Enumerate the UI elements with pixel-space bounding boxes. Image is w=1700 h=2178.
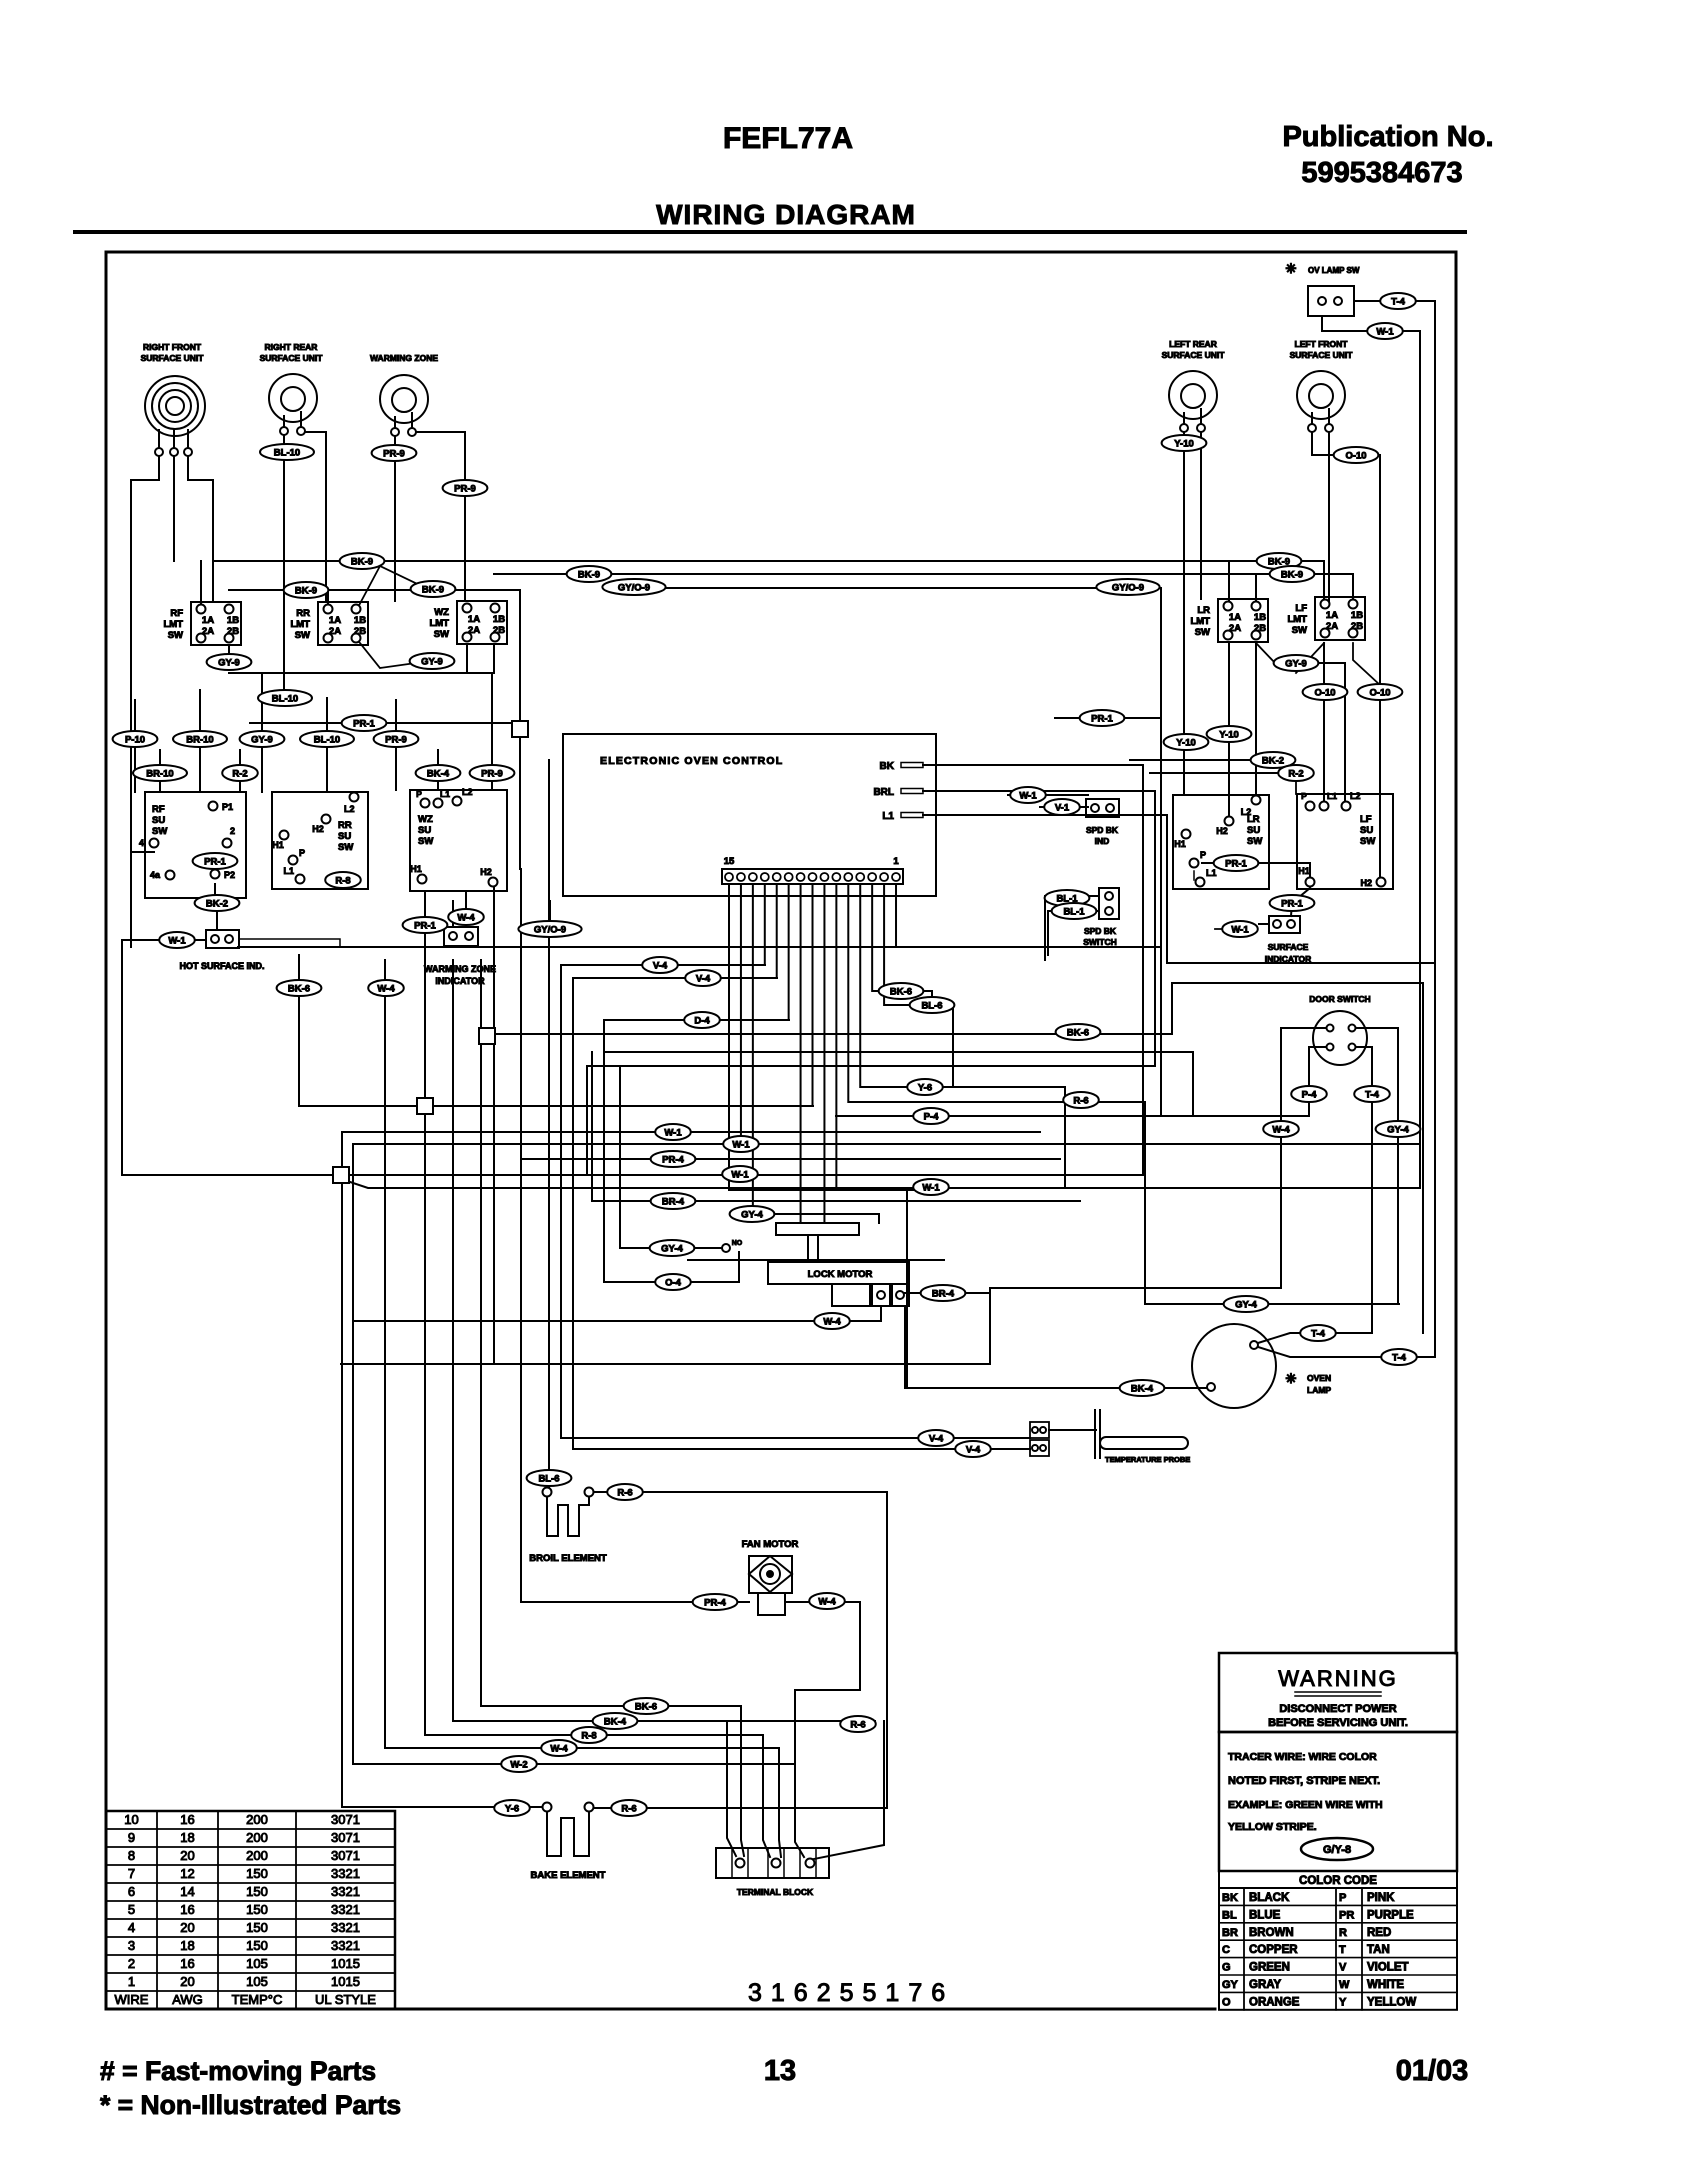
svg-text:P: P (1339, 1892, 1346, 1904)
svg-text:GREEN: GREEN (1249, 1962, 1290, 1974)
svg-text:V-1: V-1 (1055, 803, 1070, 814)
svg-text:PR: PR (1339, 1909, 1354, 1921)
svg-text:GY/O-9: GY/O-9 (618, 583, 650, 594)
svg-text:LMT: LMT (429, 618, 449, 629)
svg-text:O-10: O-10 (1314, 688, 1335, 699)
svg-text:R-6: R-6 (617, 1488, 632, 1499)
svg-text:INDICATOR: INDICATOR (435, 976, 485, 986)
svg-text:WIRE: WIRE (115, 1992, 149, 2007)
svg-text:5: 5 (128, 1902, 135, 1917)
svg-text:1A: 1A (1326, 610, 1338, 621)
svg-text:H1: H1 (272, 840, 284, 850)
svg-text:2A: 2A (468, 625, 480, 636)
svg-text:2A: 2A (1326, 621, 1338, 632)
svg-text:H2: H2 (480, 867, 492, 877)
svg-text:SURFACE UNIT: SURFACE UNIT (1290, 350, 1354, 360)
svg-text:L1: L1 (440, 789, 450, 799)
svg-text:2: 2 (128, 1956, 135, 1971)
svg-text:R-8: R-8 (581, 1731, 596, 1742)
svg-text:T-4: T-4 (1311, 1329, 1325, 1340)
svg-text:BR-4: BR-4 (662, 1197, 685, 1208)
svg-text:12: 12 (180, 1866, 194, 1881)
svg-text:V-4: V-4 (929, 1434, 944, 1445)
svg-text:1015: 1015 (331, 1956, 360, 1971)
svg-text:18: 18 (180, 1830, 194, 1845)
svg-text:16: 16 (180, 1812, 194, 1827)
svg-text:16: 16 (180, 1902, 194, 1917)
svg-text:WHITE: WHITE (1367, 1979, 1404, 1991)
svg-text:316255176: 316255176 (748, 1979, 954, 2007)
svg-text:PR-1: PR-1 (204, 857, 226, 868)
svg-text:TAN: TAN (1367, 1944, 1390, 1956)
svg-text:BROIL ELEMENT: BROIL ELEMENT (529, 1553, 607, 1564)
svg-text:1B: 1B (493, 614, 505, 625)
svg-text:SW: SW (338, 842, 353, 853)
svg-text:W-2: W-2 (510, 1760, 527, 1771)
svg-text:BL-6: BL-6 (538, 1474, 559, 1485)
svg-text:V: V (1339, 1962, 1347, 1974)
svg-text:BK-2: BK-2 (206, 899, 228, 910)
svg-text:BL-6: BL-6 (921, 1001, 942, 1012)
svg-text:01/03: 01/03 (1396, 2055, 1469, 2087)
svg-text:PR-1: PR-1 (1091, 714, 1113, 725)
svg-text:# = Fast-moving Parts: # = Fast-moving Parts (100, 2056, 376, 2086)
svg-text:SW: SW (152, 826, 167, 837)
svg-text:3321: 3321 (331, 1920, 360, 1935)
svg-text:NOTED FIRST, STRIPE NEXT.: NOTED FIRST, STRIPE NEXT. (1228, 1775, 1380, 1787)
svg-text:W-4: W-4 (823, 1317, 841, 1328)
svg-text:W-4: W-4 (818, 1597, 836, 1608)
svg-text:AWG: AWG (172, 1992, 203, 2007)
svg-text:SWITCH: SWITCH (1083, 937, 1117, 947)
svg-text:P-4: P-4 (924, 1112, 940, 1123)
svg-text:SURFACE UNIT: SURFACE UNIT (260, 353, 324, 363)
svg-text:1B: 1B (354, 615, 366, 626)
svg-text:PR-1: PR-1 (1281, 899, 1303, 910)
svg-text:R-6: R-6 (621, 1804, 636, 1815)
svg-text:T: T (1339, 1944, 1346, 1956)
svg-text:L1: L1 (1327, 791, 1337, 801)
svg-text:IND: IND (1095, 836, 1110, 846)
svg-text:RF: RF (152, 804, 165, 815)
svg-text:LOCK MOTOR: LOCK MOTOR (808, 1269, 873, 1280)
svg-text:150: 150 (246, 1866, 268, 1881)
svg-text:SW: SW (1360, 836, 1375, 847)
svg-text:R-6: R-6 (1073, 1096, 1088, 1107)
svg-text:EXAMPLE: GREEN WIRE WIT: EXAMPLE: GREEN WIRE WITH (1228, 1799, 1383, 1811)
svg-text:DOOR SWITCH: DOOR SWITCH (1309, 994, 1370, 1004)
svg-text:W-1: W-1 (731, 1170, 749, 1181)
svg-text:R-8: R-8 (335, 876, 350, 887)
svg-text:PR-9: PR-9 (385, 735, 407, 746)
svg-text:R: R (1339, 1927, 1347, 1939)
svg-text:WARNING: WARNING (1278, 1666, 1398, 1691)
svg-text:SW: SW (418, 836, 433, 847)
svg-text:P: P (299, 848, 305, 858)
svg-text:T-4: T-4 (1391, 297, 1405, 308)
svg-text:PR-1: PR-1 (353, 719, 375, 730)
svg-text:W-1: W-1 (922, 1183, 940, 1194)
svg-text:4a: 4a (150, 870, 161, 880)
svg-text:L1: L1 (1206, 868, 1217, 878)
svg-text:BR-10: BR-10 (146, 769, 173, 780)
svg-text:SU: SU (338, 831, 351, 842)
svg-text:* = Non-Illustrated Parts: * = Non-Illustrated Parts (100, 2090, 401, 2120)
svg-text:WZ: WZ (434, 607, 449, 618)
svg-text:W-1: W-1 (1231, 925, 1249, 936)
svg-text:3321: 3321 (331, 1902, 360, 1917)
svg-text:P: P (1301, 791, 1307, 801)
svg-text:LR: LR (1197, 605, 1210, 616)
svg-text:SW: SW (168, 630, 183, 641)
svg-text:BK-9: BK-9 (578, 570, 600, 581)
svg-text:NO: NO (732, 1240, 743, 1247)
svg-text:INDICATOR: INDICATOR (1265, 954, 1311, 964)
svg-text:YELLOW: YELLOW (1367, 1996, 1416, 2008)
svg-text:BK-4: BK-4 (604, 1717, 627, 1728)
svg-text:GY: GY (1222, 1979, 1239, 1991)
svg-text:L1: L1 (882, 811, 894, 822)
svg-text:VIOLET: VIOLET (1367, 1962, 1409, 1974)
svg-text:GY-4: GY-4 (741, 1210, 763, 1221)
svg-text:✳: ✳ (1286, 261, 1297, 276)
svg-text:1B: 1B (227, 615, 239, 626)
svg-text:2A: 2A (1229, 623, 1241, 634)
svg-text:1: 1 (128, 1974, 135, 1989)
svg-text:ELECTRONIC OVEN CONTROL: ELECTRONIC OVEN CONTROL (600, 755, 783, 767)
svg-text:W-1: W-1 (168, 936, 186, 947)
svg-text:2A: 2A (202, 626, 214, 637)
svg-text:1A: 1A (468, 614, 480, 625)
svg-text:BK-4: BK-4 (1131, 1384, 1154, 1395)
svg-text:BK-6: BK-6 (288, 984, 310, 995)
svg-text:TEMP°C: TEMP°C (232, 1992, 283, 2007)
svg-text:1A: 1A (202, 615, 214, 626)
svg-text:RF: RF (170, 608, 183, 619)
svg-text:PR-9: PR-9 (383, 449, 405, 460)
svg-text:3321: 3321 (331, 1866, 360, 1881)
svg-text:GY-9: GY-9 (421, 657, 443, 668)
svg-text:16: 16 (180, 1956, 194, 1971)
svg-text:R-6: R-6 (850, 1720, 865, 1731)
svg-text:200: 200 (246, 1848, 268, 1863)
svg-text:P2: P2 (224, 870, 235, 880)
svg-text:L2: L2 (1350, 791, 1361, 801)
svg-text:H1: H1 (1174, 839, 1186, 849)
svg-text:BK: BK (1222, 1892, 1238, 1904)
svg-text:15: 15 (724, 856, 735, 867)
svg-text:7: 7 (128, 1866, 135, 1881)
svg-text:FEFL77A: FEFL77A (723, 122, 853, 155)
svg-text:2A: 2A (329, 626, 341, 637)
svg-text:L2: L2 (344, 804, 355, 814)
svg-text:BK-2: BK-2 (1262, 756, 1284, 767)
svg-text:BK-9: BK-9 (351, 557, 373, 568)
svg-text:PINK: PINK (1367, 1892, 1395, 1904)
svg-text:3321: 3321 (331, 1884, 360, 1899)
svg-text:W-4: W-4 (550, 1744, 568, 1755)
svg-text:G: G (1222, 1962, 1231, 1974)
svg-text:RR: RR (296, 608, 310, 619)
svg-text:1015: 1015 (331, 1974, 360, 1989)
svg-text:HOT SURFACE IND.: HOT SURFACE IND. (179, 961, 264, 971)
svg-text:Y: Y (1339, 1996, 1347, 2008)
svg-text:2B: 2B (227, 626, 239, 637)
svg-text:SURFACE: SURFACE (1268, 942, 1309, 952)
svg-text:YELLOW STRIPE.: YELLOW STRIPE. (1228, 1821, 1317, 1833)
svg-text:Y-10: Y-10 (1219, 730, 1239, 741)
svg-text:LEFT FRONT: LEFT FRONT (1295, 339, 1349, 349)
svg-text:W-1: W-1 (664, 1128, 682, 1139)
svg-text:WARMING ZONE: WARMING ZONE (370, 353, 438, 363)
svg-text:2B: 2B (1254, 623, 1266, 634)
svg-text:V-4: V-4 (966, 1445, 981, 1456)
svg-text:SURFACE UNIT: SURFACE UNIT (1162, 350, 1226, 360)
svg-text:ORANGE: ORANGE (1249, 1996, 1300, 2008)
svg-text:BL-10: BL-10 (314, 735, 340, 746)
svg-text:WZ: WZ (418, 814, 433, 825)
svg-text:BK-6: BK-6 (1067, 1028, 1089, 1039)
svg-text:18: 18 (180, 1938, 194, 1953)
svg-text:BL: BL (1222, 1909, 1237, 1921)
svg-text:P: P (1200, 850, 1206, 860)
svg-text:LF: LF (1360, 814, 1372, 825)
svg-text:V-4: V-4 (653, 961, 668, 972)
svg-text:2B: 2B (493, 625, 505, 636)
svg-text:150: 150 (246, 1902, 268, 1917)
svg-text:Y-10: Y-10 (1174, 439, 1194, 450)
svg-text:9: 9 (128, 1830, 135, 1845)
svg-text:BEFORE SERVICING UNIT.: BEFORE SERVICING UNIT. (1268, 1717, 1408, 1729)
svg-text:2B: 2B (354, 626, 366, 637)
svg-text:PR-1: PR-1 (414, 921, 436, 932)
svg-text:O-10: O-10 (1345, 451, 1366, 462)
svg-text:200: 200 (246, 1812, 268, 1827)
svg-text:105: 105 (246, 1974, 268, 1989)
svg-text:150: 150 (246, 1884, 268, 1899)
svg-text:R-2: R-2 (1288, 769, 1303, 780)
svg-text:SU: SU (1360, 825, 1373, 836)
svg-text:W-4: W-4 (457, 913, 475, 924)
svg-text:H2: H2 (1360, 878, 1372, 888)
svg-text:BK-6: BK-6 (890, 987, 912, 998)
svg-text:SU: SU (152, 815, 165, 826)
svg-text:LEFT REAR: LEFT REAR (1169, 339, 1217, 349)
svg-text:COPPER: COPPER (1249, 1944, 1298, 1956)
svg-text:O-4: O-4 (665, 1278, 682, 1289)
svg-text:P: P (416, 789, 422, 799)
svg-text:2: 2 (230, 826, 235, 836)
svg-text:1A: 1A (1229, 612, 1241, 623)
svg-text:GY-9: GY-9 (1285, 659, 1307, 670)
svg-text:LMT: LMT (1190, 616, 1210, 627)
svg-text:H1: H1 (1298, 866, 1310, 876)
svg-text:L2: L2 (462, 787, 473, 797)
svg-text:OV LAMP SW: OV LAMP SW (1308, 266, 1360, 275)
svg-text:BR: BR (1222, 1927, 1238, 1939)
svg-text:PR-9: PR-9 (454, 484, 476, 495)
svg-text:14: 14 (180, 1884, 194, 1899)
svg-text:3071: 3071 (331, 1812, 360, 1827)
svg-text:Y-6: Y-6 (505, 1804, 519, 1815)
svg-text:3071: 3071 (331, 1848, 360, 1863)
svg-text:BL-1: BL-1 (1063, 907, 1085, 918)
svg-text:BL-10: BL-10 (272, 694, 298, 705)
svg-text:SW: SW (434, 629, 449, 640)
svg-text:GY-4: GY-4 (1235, 1300, 1257, 1311)
svg-text:V-4: V-4 (696, 974, 711, 985)
svg-text:SURFACE UNIT: SURFACE UNIT (141, 353, 205, 363)
svg-text:WIRING DIAGRAM: WIRING DIAGRAM (656, 199, 916, 230)
svg-text:BK-9: BK-9 (422, 585, 444, 596)
svg-text:LMT: LMT (290, 619, 310, 630)
svg-text:W-1: W-1 (1019, 791, 1037, 802)
svg-text:C: C (1222, 1944, 1230, 1956)
svg-text:3: 3 (128, 1938, 135, 1953)
svg-text:GRAY: GRAY (1249, 1979, 1281, 1991)
svg-text:O-10: O-10 (1369, 688, 1390, 699)
svg-text:UL STYLE: UL STYLE (315, 1992, 376, 2007)
svg-text:3071: 3071 (331, 1830, 360, 1845)
svg-text:O: O (1222, 1996, 1231, 2008)
svg-text:H2: H2 (1216, 826, 1228, 836)
svg-text:BRL: BRL (873, 787, 894, 798)
svg-text:PR-4: PR-4 (662, 1155, 684, 1166)
svg-text:FAN MOTOR: FAN MOTOR (742, 1539, 799, 1550)
svg-text:20: 20 (180, 1848, 194, 1863)
svg-text:GY-4: GY-4 (1387, 1125, 1409, 1136)
svg-text:GY-9: GY-9 (218, 658, 240, 669)
svg-text:TERMINAL BLOCK: TERMINAL BLOCK (737, 1887, 814, 1897)
svg-text:H1: H1 (410, 864, 422, 874)
svg-text:P1: P1 (222, 802, 233, 812)
svg-text:SU: SU (418, 825, 431, 836)
svg-text:BK-9: BK-9 (1281, 570, 1303, 581)
svg-text:SU: SU (1247, 825, 1260, 836)
svg-text:W-4: W-4 (1272, 1125, 1290, 1136)
svg-text:BLUE: BLUE (1249, 1909, 1281, 1921)
svg-text:W-4: W-4 (377, 984, 395, 995)
svg-text:W: W (1339, 1979, 1350, 1991)
svg-text:BR-4: BR-4 (932, 1289, 955, 1300)
svg-text:BK-9: BK-9 (295, 586, 317, 597)
svg-text:W-1: W-1 (1376, 327, 1394, 338)
svg-text:20: 20 (180, 1974, 194, 1989)
svg-text:BK-6: BK-6 (635, 1702, 657, 1713)
svg-text:LAMP: LAMP (1307, 1385, 1331, 1395)
svg-text:P-4: P-4 (1302, 1090, 1318, 1101)
svg-text:1B: 1B (1351, 610, 1363, 621)
svg-text:Publication No.: Publication No. (1282, 121, 1493, 153)
svg-text:WARMING ZONE: WARMING ZONE (424, 964, 496, 974)
svg-text:BAKE ELEMENT: BAKE ELEMENT (531, 1870, 606, 1881)
svg-text:PR-1: PR-1 (1225, 859, 1247, 870)
svg-text:1: 1 (893, 856, 899, 867)
svg-text:GY-9: GY-9 (251, 735, 273, 746)
svg-text:RED: RED (1367, 1927, 1391, 1939)
svg-text:GY/O-9: GY/O-9 (534, 925, 566, 936)
svg-text:RR: RR (338, 820, 352, 831)
svg-text:200: 200 (246, 1830, 268, 1845)
svg-text:SW: SW (1195, 627, 1210, 638)
svg-text:SPD BK: SPD BK (1086, 825, 1119, 835)
svg-text:150: 150 (246, 1938, 268, 1953)
svg-text:BLACK: BLACK (1249, 1892, 1290, 1904)
svg-text:8: 8 (128, 1848, 135, 1863)
svg-text:GY/O-9: GY/O-9 (1112, 583, 1144, 594)
svg-text:W-1: W-1 (732, 1140, 750, 1151)
svg-text:BL-10: BL-10 (274, 448, 300, 459)
svg-text:RIGHT FRONT: RIGHT FRONT (143, 342, 202, 352)
svg-text:PR-9: PR-9 (481, 769, 503, 780)
svg-text:LMT: LMT (163, 619, 183, 630)
svg-text:R-2: R-2 (232, 769, 247, 780)
svg-text:COLOR CODE: COLOR CODE (1299, 1875, 1377, 1887)
svg-text:20: 20 (180, 1920, 194, 1935)
svg-text:4: 4 (128, 1920, 135, 1935)
svg-text:BR-10: BR-10 (186, 735, 213, 746)
svg-text:LMT: LMT (1287, 614, 1307, 625)
svg-text:SW: SW (295, 630, 310, 641)
svg-text:P-10: P-10 (125, 735, 145, 746)
svg-text:H2: H2 (312, 824, 324, 834)
svg-text:SW: SW (1247, 836, 1262, 847)
svg-text:D-4: D-4 (694, 1016, 710, 1027)
svg-text:RIGHT REAR: RIGHT REAR (265, 342, 318, 352)
svg-text:TRACER WIRE: WIRE COLOR: TRACER WIRE: WIRE COLOR (1228, 1751, 1377, 1763)
svg-text:3321: 3321 (331, 1938, 360, 1953)
svg-text:BK-4: BK-4 (427, 769, 450, 780)
svg-text:1B: 1B (1254, 612, 1266, 623)
svg-text:BK: BK (880, 761, 895, 772)
svg-text:4: 4 (139, 838, 144, 848)
svg-text:T-4: T-4 (1365, 1090, 1379, 1101)
svg-text:6: 6 (128, 1884, 135, 1899)
svg-text:105: 105 (246, 1956, 268, 1971)
svg-text:TEMPERATURE PROBE: TEMPERATURE PROBE (1105, 1455, 1190, 1464)
svg-text:13: 13 (764, 2055, 796, 2087)
svg-text:Y-6: Y-6 (918, 1083, 932, 1094)
svg-text:PR-4: PR-4 (704, 1598, 726, 1609)
svg-text:PURPLE: PURPLE (1367, 1909, 1414, 1921)
svg-text:DISCONNECT POWER: DISCONNECT POWER (1279, 1703, 1396, 1715)
svg-text:L2: L2 (1241, 807, 1252, 817)
svg-text:LF: LF (1295, 603, 1307, 614)
svg-text:2B: 2B (1351, 621, 1363, 632)
svg-text:GY-4: GY-4 (661, 1244, 683, 1255)
svg-text:SW: SW (1292, 625, 1307, 636)
svg-text:T-4: T-4 (1392, 1353, 1406, 1364)
svg-text:1A: 1A (329, 615, 341, 626)
svg-text:✳: ✳ (1286, 1371, 1297, 1386)
svg-text:BROWN: BROWN (1249, 1927, 1294, 1939)
svg-text:G/Y-8: G/Y-8 (1323, 1844, 1351, 1856)
svg-text:Y-10: Y-10 (1176, 738, 1196, 749)
svg-text:10: 10 (124, 1812, 138, 1827)
svg-text:150: 150 (246, 1920, 268, 1935)
svg-text:5995384673: 5995384673 (1301, 157, 1462, 189)
svg-text:OVEN: OVEN (1307, 1373, 1331, 1383)
svg-text:L1: L1 (283, 866, 294, 876)
svg-text:SPD BK: SPD BK (1084, 926, 1117, 936)
